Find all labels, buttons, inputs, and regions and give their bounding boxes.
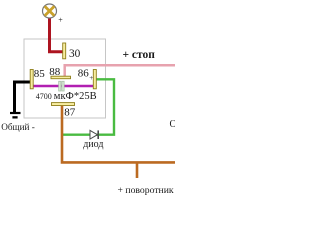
svg-text:Общий -: Общий - [1,122,35,132]
wire: green from pin 86 through diode to turn wire [62,79,114,134]
svg-text:+: + [58,15,63,24]
wire: dark red from lamp to pin 30 [50,18,63,52]
diode VD1 [90,130,98,139]
svg-text:88: 88 [49,66,61,78]
terminal 85 [30,70,33,89]
terminal 87 [52,103,75,106]
svg-text:85: 85 [34,68,46,80]
svg-text:+ стоп: + стоп [123,49,156,61]
terminal 30 [63,43,66,59]
svg-text:4700 мкФ*25В: 4700 мкФ*25В [36,91,97,102]
lamp HL1 [43,4,57,18]
ground (battery minus) [10,112,21,114]
wire: brown branch stub to label [136,162,139,178]
wire: pink +stop wire from pin 88 up and right to edge [65,65,175,77]
wire: brown turn-signal wire from pin 87 [62,106,175,163]
terminal 88 [51,76,71,79]
svg-text:+ поворотник: + поворотник [118,185,174,196]
svg-text:30: 30 [69,48,81,60]
svg-text:+: + [89,74,93,82]
svg-text:87: 87 [64,107,76,119]
wire: black ground wire to pin 85 [15,82,31,114]
relay body outline [24,39,106,118]
wire: magenta capacitor wire 85 to 86 [33,85,93,87]
svg-text:Общий: Общий [170,119,176,130]
terminal 86 [93,70,96,89]
svg-text:диод: диод [83,139,103,150]
svg-text:86: 86 [78,67,90,79]
capacitor C1 plates [59,81,64,91]
